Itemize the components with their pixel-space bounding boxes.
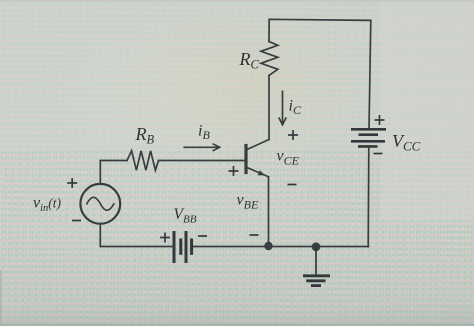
wire bottom rail left [100, 224, 172, 247]
minus sign vCE [288, 184, 297, 186]
current arrow iC [279, 91, 286, 125]
wire base from source loop through RB to transistor [100, 161, 127, 184]
current arrow iB [183, 144, 219, 151]
resistor RC [261, 42, 278, 76]
node ground junction dot [312, 242, 321, 251]
transistor Q1 emitter arrowhead [258, 170, 265, 175]
plus sign VBB [160, 233, 170, 243]
minus sign vin [72, 220, 81, 222]
node emitter junction dot [264, 242, 272, 250]
plus sign vin [67, 178, 77, 188]
battery VBB plates [174, 231, 192, 263]
minus sign VCC [374, 153, 383, 155]
wire VCC bottom to rail [367, 146, 370, 246]
ground symbol [303, 247, 330, 286]
plus sign VCC [375, 115, 385, 125]
resistor RB [127, 151, 159, 170]
minus sign VBB [198, 235, 207, 237]
source sine wave [87, 197, 114, 210]
transistor Q1 collector lead [247, 140, 269, 150]
wire bottom rail right of VBB [193, 246, 369, 248]
plus sign vBE [229, 166, 239, 176]
source circle vin [80, 184, 120, 224]
wire RC bottom to collector [268, 76, 270, 140]
battery VCC plates [351, 129, 386, 146]
wire top rail [269, 19, 371, 129]
wire RB to base [159, 160, 245, 162]
plus sign vCE [288, 130, 298, 140]
transistor Q1 base bar [244, 146, 247, 173]
transistor Q1 emitter lead [247, 168, 269, 177]
wire emitter down [268, 177, 270, 247]
minus sign vBE [250, 234, 259, 236]
